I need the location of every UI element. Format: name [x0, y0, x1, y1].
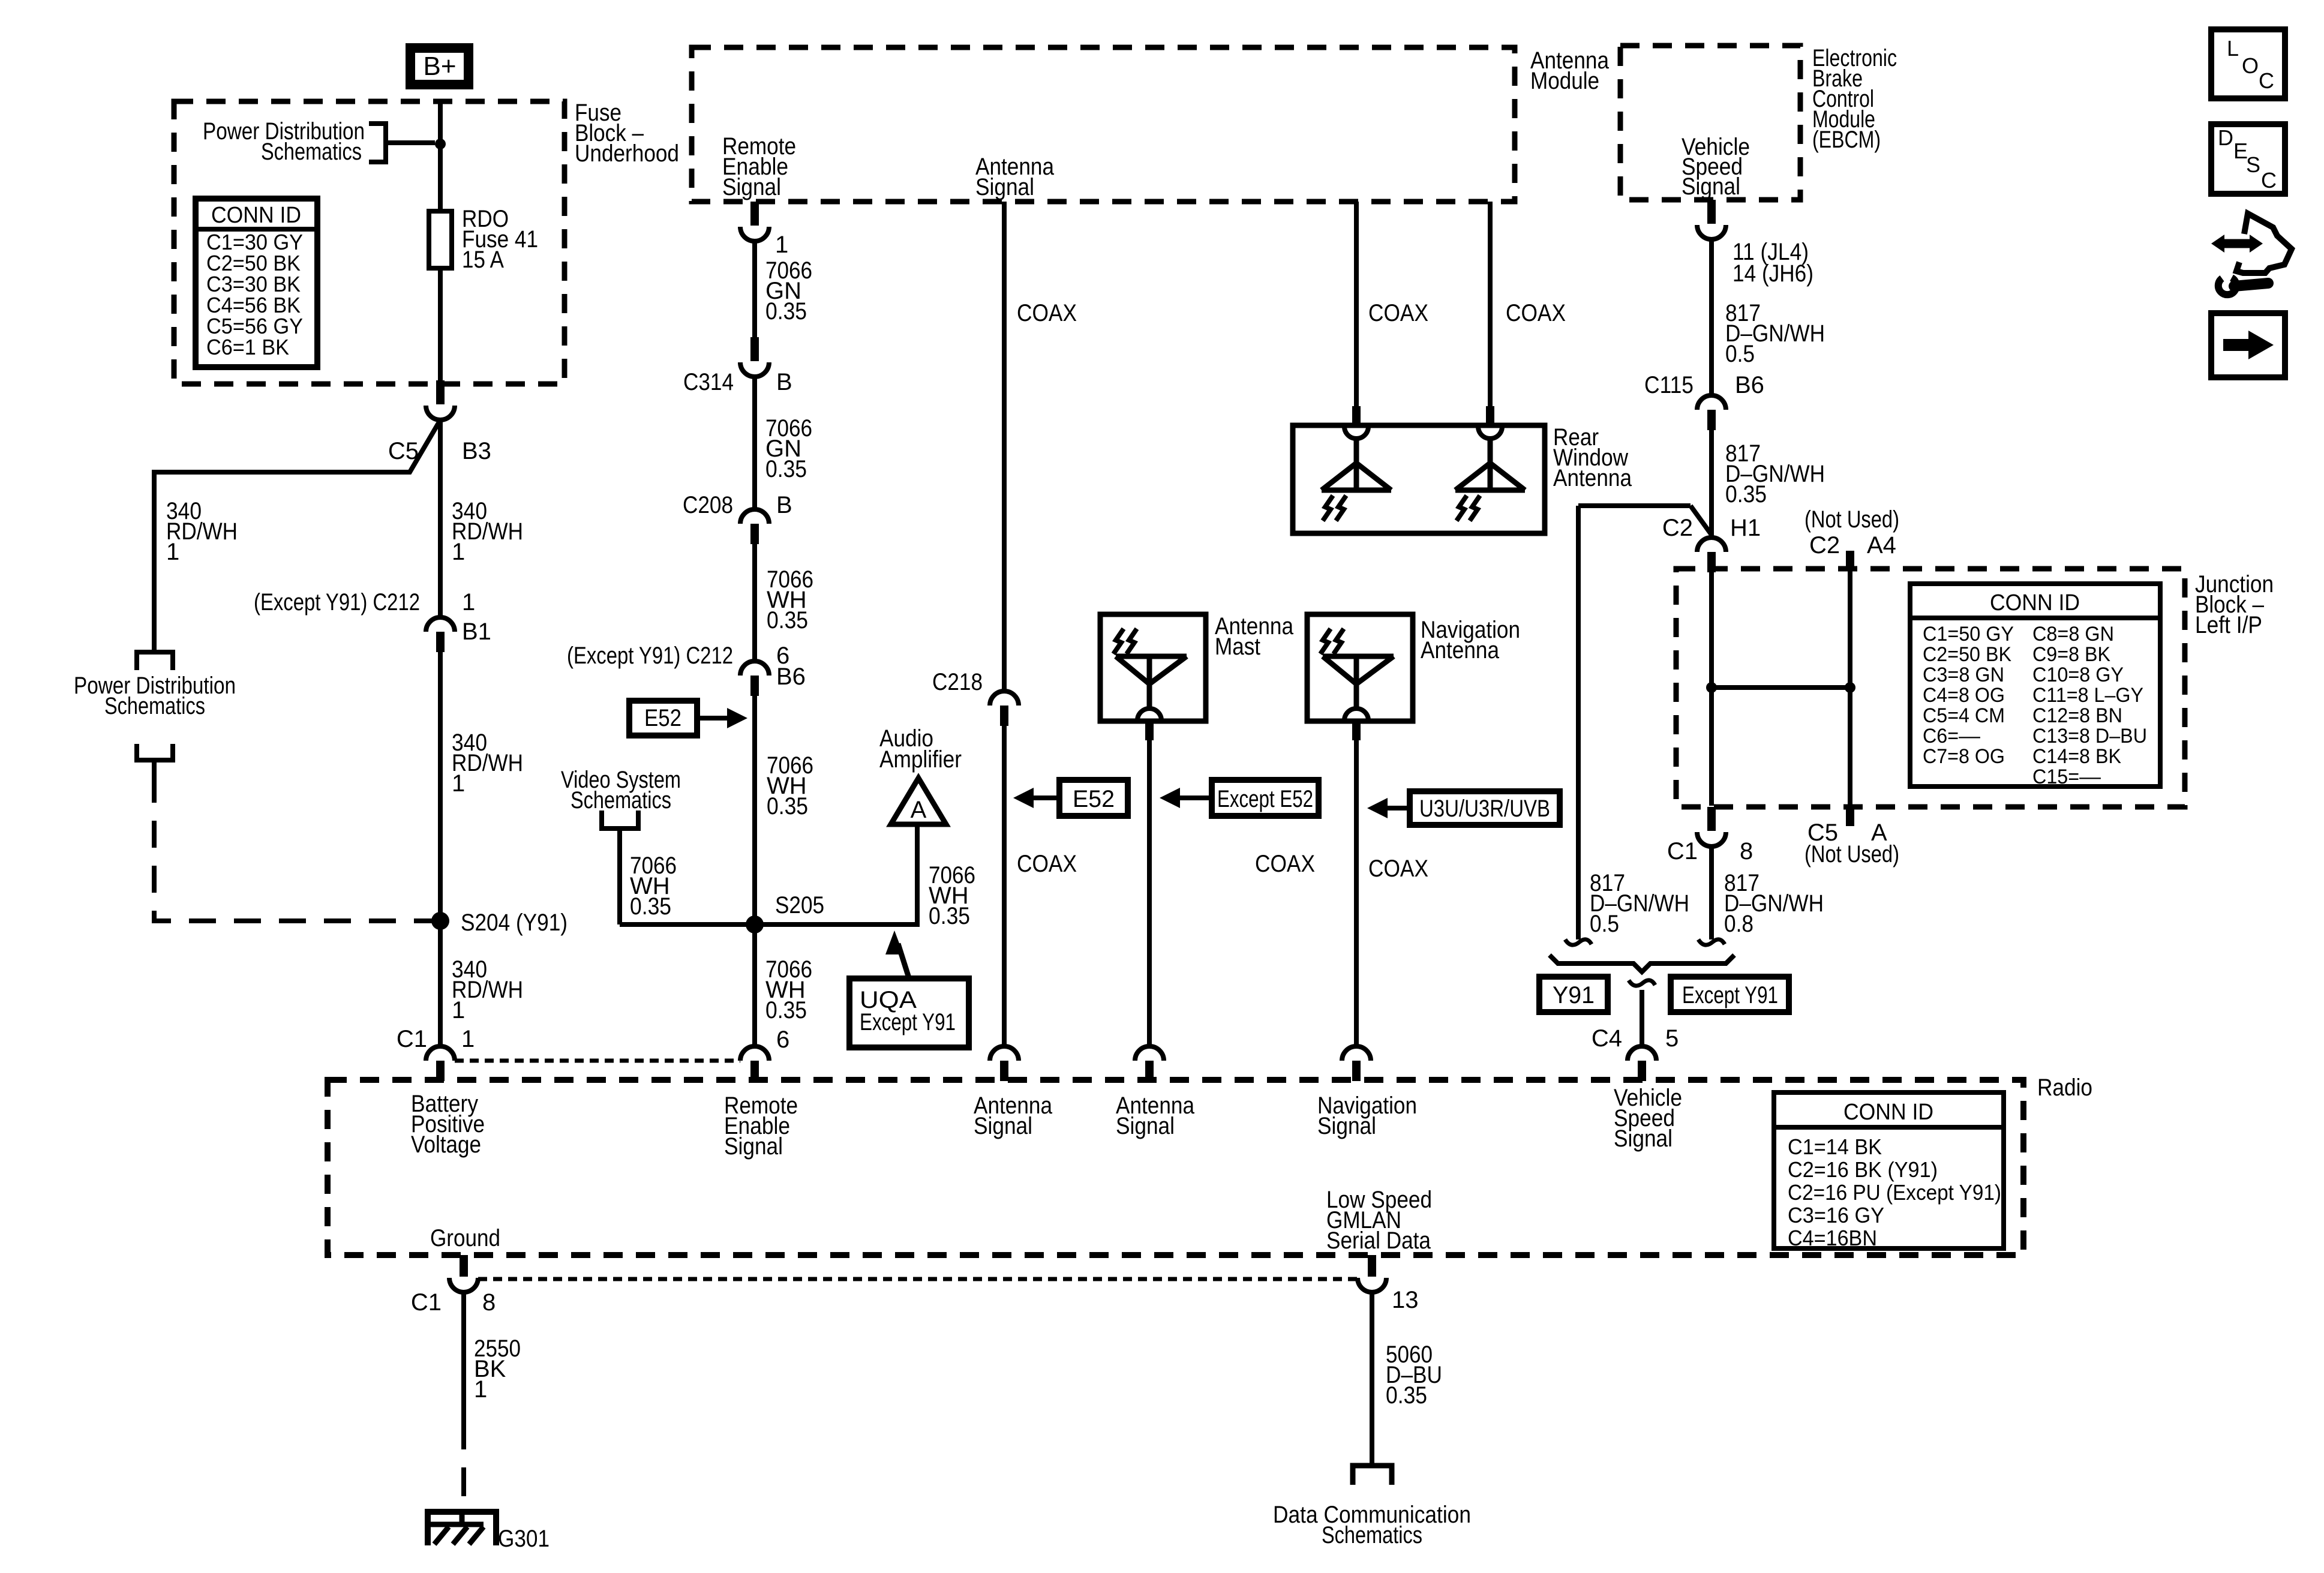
svg-text:C2=16 PU (Except Y91): C2=16 PU (Except Y91) [1788, 1180, 2001, 1205]
label C5 A (Not Used) [1804, 819, 1899, 867]
label B6 (C212 remote) [776, 664, 806, 690]
svg-text:H1: H1 [1730, 515, 1761, 541]
svg-text:C12=8 BN: C12=8 BN [2032, 704, 2122, 727]
label 340 RD/WH 1 (below C212) [452, 730, 523, 797]
svg-text:S204 (Y91): S204 (Y91) [461, 909, 568, 936]
label Battery Positive Voltage [411, 1091, 485, 1158]
wire end curl except Y91 branch [1698, 939, 1725, 945]
svg-text:0.8: 0.8 [1724, 911, 1753, 937]
svg-text:E52: E52 [644, 705, 681, 731]
reference box U3U/U3R/UVB [1367, 791, 1560, 825]
label COAX (antenna signal upper) [1017, 300, 1077, 326]
svg-text:C14=8 BK: C14=8 BK [2032, 745, 2121, 768]
antenna mast box [1100, 614, 1206, 721]
svg-text:15 A: 15 A [462, 247, 504, 273]
label Antenna Module [1530, 47, 1610, 94]
svg-text:B1: B1 [462, 619, 491, 645]
icon shortcut wrench-arrow [2211, 214, 2292, 295]
component Data Communication Schematics reference [1273, 1466, 1471, 1548]
wire navigation antenna to radio [1352, 721, 1361, 1046]
radio dashed box [328, 1080, 2023, 1255]
svg-text:COAX: COAX [1506, 300, 1566, 326]
svg-text:C2: C2 [1662, 515, 1693, 541]
svg-text:Underhood: Underhood [575, 140, 679, 167]
svg-text:Schematics: Schematics [261, 139, 362, 165]
svg-text:(Except Y91) C212: (Except Y91) C212 [254, 589, 420, 616]
label Antenna Signal (radio 2) [1116, 1092, 1195, 1139]
svg-text:C3=16 GY: C3=16 GY [1788, 1203, 1884, 1227]
label 340 RD/WH 1 (battery wire upper) [452, 498, 523, 565]
connector C5/B3 fuse block output [388, 380, 491, 464]
svg-text:0.35: 0.35 [929, 903, 970, 929]
label 817 D-GN/WH 0.8 (except Y91 branch) [1724, 870, 1824, 937]
svg-text:Y91: Y91 [1553, 982, 1595, 1008]
svg-text:COAX: COAX [1255, 851, 1315, 877]
label 2550 BK 1 [474, 1335, 521, 1403]
svg-text:0.35: 0.35 [767, 793, 808, 819]
svg-text:1: 1 [452, 770, 465, 797]
svg-text:C1: C1 [1667, 838, 1698, 864]
wire C212 to radio battery input [438, 652, 443, 1046]
svg-text:C10=8 GY: C10=8 GY [2032, 664, 2124, 686]
label Vehicle Speed Signal (radio) [1614, 1085, 1682, 1152]
audio amplifier triangle A [879, 725, 962, 824]
svg-text:E52: E52 [1073, 786, 1115, 812]
label Remote Enable Signal (antenna module) [722, 133, 796, 200]
wire junction block right vertical [1848, 571, 1852, 806]
connector radio antenna signal 1 [990, 1046, 1019, 1081]
component Power Distribution Schematics (left reference) [74, 652, 236, 776]
label Radio [2037, 1074, 2092, 1101]
svg-text:Signal: Signal [1614, 1125, 1673, 1152]
label (Except Y91) C212 battery [254, 589, 420, 616]
svg-text:0.35: 0.35 [630, 893, 671, 920]
fuse block - underhood dashed box [174, 101, 565, 384]
wire C115 to C2 junction block [1709, 430, 1714, 538]
svg-text:C13=8 D–BU: C13=8 D–BU [2032, 725, 2147, 748]
connector radio battery positive C1/1 [397, 1026, 475, 1081]
svg-text:CONN ID: CONN ID [211, 203, 301, 228]
connector C2/H1 junction block input [1662, 515, 1761, 572]
label 11 (JL4) 14 (JH6) [1733, 239, 1813, 287]
svg-text:S205: S205 [775, 892, 824, 918]
label COAX (navigation) [1368, 855, 1428, 882]
label 340 RD/WH 1 (left branch) [166, 498, 238, 565]
svg-text:C115: C115 [1644, 372, 1694, 398]
label Antenna Signal (antenna module) [975, 154, 1055, 200]
svg-text:Module: Module [1530, 68, 1599, 94]
svg-text:COAX: COAX [1368, 855, 1428, 882]
ground G301 [428, 1512, 550, 1552]
svg-text:Antenna: Antenna [1553, 465, 1632, 491]
svg-text:C7=8 OG: C7=8 OG [1923, 745, 2005, 768]
svg-text:1: 1 [474, 1376, 487, 1403]
navigation antenna box [1307, 614, 1413, 721]
svg-text:Except E52: Except E52 [1217, 786, 1313, 812]
svg-text:S: S [2246, 152, 2260, 177]
svg-text:1: 1 [452, 539, 465, 565]
connector C218 [932, 669, 1019, 726]
svg-text:0.35: 0.35 [767, 607, 808, 634]
reference box E52 (antenna signal) [1013, 780, 1128, 816]
wire C212 to radio remote input [752, 696, 757, 1046]
svg-text:Voltage: Voltage [411, 1131, 481, 1158]
connector EBCM vehicle speed output [1697, 200, 1726, 239]
svg-text:C8=8 GN: C8=8 GN [2032, 623, 2114, 646]
label COAX (antenna mast) [1255, 851, 1315, 877]
svg-text:L: L [2227, 36, 2239, 61]
connector C314 [683, 337, 792, 395]
svg-text:Mast: Mast [1215, 634, 1260, 660]
label 7066 WH 0.35 (video branch) [630, 852, 677, 920]
EBCM dashed box [1620, 46, 1800, 200]
svg-text:C2=50 BK: C2=50 BK [1923, 643, 2011, 666]
svg-text:CONN ID: CONN ID [1843, 1100, 1933, 1125]
wire end curl merged [1629, 980, 1655, 986]
svg-text:Antenna: Antenna [1421, 637, 1500, 664]
connector C208 [683, 492, 792, 544]
svg-text:A: A [911, 797, 927, 823]
svg-text:Signal: Signal [1682, 173, 1740, 200]
svg-text:Signal: Signal [1317, 1113, 1376, 1139]
label 817 D-GN/WH 0.35 (below C115) [1725, 440, 1825, 508]
svg-text:B3: B3 [462, 438, 491, 464]
wire fuse to connector C5 [438, 268, 443, 380]
wire EBCM to C115 [1709, 239, 1714, 395]
svg-text:0.35: 0.35 [1386, 1382, 1427, 1409]
label Fuse Block - Underhood [575, 100, 679, 167]
svg-text:C1: C1 [397, 1026, 427, 1052]
splice S204 (Y91) [431, 909, 568, 936]
connector radio remote enable (pin 6) [740, 1046, 769, 1081]
junction block - left I/P dashed box [1676, 569, 2185, 807]
svg-text:5: 5 [1665, 1025, 1679, 1052]
wire S205 horizontal to audio amp branch [620, 922, 917, 927]
power symbol B+ [410, 48, 469, 85]
svg-text:Left I/P: Left I/P [2195, 612, 2262, 638]
connector radio ground C1/8 [411, 1255, 496, 1316]
svg-text:C9=8 BK: C9=8 BK [2032, 643, 2110, 666]
radio CONN ID table [1774, 1092, 2004, 1250]
wire Y91 branch vertical [1576, 506, 1581, 939]
junction dot power distribution tap [435, 139, 446, 149]
label COAX (rear window left) [1368, 300, 1428, 326]
svg-text:0.35: 0.35 [1725, 481, 1767, 508]
svg-text:(EBCM): (EBCM) [1812, 127, 1881, 153]
label 7066 WH 0.35 (below C208) [767, 566, 813, 634]
merge brace [1550, 955, 1734, 972]
svg-text:B: B [776, 369, 792, 395]
wire ground dashed [461, 1421, 466, 1509]
svg-text:Signal: Signal [722, 174, 781, 200]
label COAX (antenna signal lower) [1017, 851, 1077, 877]
label 7066 WH 0.35 (below C212 remote) [767, 752, 813, 819]
label pin 6 radio remote [776, 1026, 789, 1053]
svg-text:B6: B6 [776, 664, 806, 690]
label 340 RD/WH 1 (below S204) [452, 956, 523, 1023]
label 7066 WH 0.35 (audio amp) [929, 862, 975, 929]
svg-text:C1: C1 [411, 1289, 442, 1316]
label 817 D-GN/WH 0.5 (Y91 branch) [1590, 870, 1689, 937]
connector C212 (battery, Except Y91) [426, 589, 475, 652]
svg-text:8: 8 [482, 1289, 496, 1316]
svg-text:COAX: COAX [1017, 300, 1077, 326]
svg-text:Schematics: Schematics [104, 693, 205, 719]
svg-text:0.5: 0.5 [1590, 911, 1619, 937]
svg-text:Serial Data: Serial Data [1326, 1227, 1431, 1254]
svg-text:1: 1 [775, 232, 788, 258]
wire C218 to radio antenna input [1002, 726, 1007, 1046]
svg-text:C1=14 BK: C1=14 BK [1788, 1134, 1882, 1159]
reference box UQA Except Y91 [849, 930, 969, 1047]
label 7066 WH 0.35 (below S205) [765, 956, 812, 1023]
connector radio antenna signal 2 [1135, 1046, 1164, 1081]
label 817 D-GN/WH 0.5 (above C115) [1725, 300, 1825, 367]
connector pin 1 antenna module remote enable [740, 202, 788, 258]
svg-text:C4=8 OG: C4=8 OG [1923, 684, 2005, 707]
svg-text:C15=––: C15=–– [2032, 766, 2101, 788]
svg-text:C218: C218 [932, 669, 983, 695]
label Navigation Antenna [1421, 617, 1520, 664]
svg-text:U3U/U3R/UVB: U3U/U3R/UVB [1419, 795, 1550, 822]
stub pin A (not used) [1846, 807, 1854, 826]
wire battery feed from B+ into fuse block [438, 100, 443, 211]
svg-text:0.35: 0.35 [765, 298, 807, 325]
option boxes Y91 / Except Y91 [1539, 977, 1789, 1012]
svg-text:(Except Y91) C212: (Except Y91) C212 [567, 643, 733, 669]
svg-text:Ground: Ground [430, 1225, 500, 1251]
label Vehicle Speed Signal (EBCM) [1682, 134, 1750, 200]
wire COAX right (module to rear window antenna) [1486, 202, 1494, 426]
radio harness dotted line bottom [478, 1277, 1358, 1281]
label (Except Y91) C212 remote [567, 643, 733, 669]
wire audio amp riser [915, 824, 920, 927]
svg-text:CONN ID: CONN ID [1990, 590, 2080, 616]
svg-text:C208: C208 [683, 492, 733, 518]
svg-text:Signal: Signal [724, 1133, 783, 1160]
radio harness dotted line top [455, 1059, 740, 1063]
wire C208 to C212 [752, 544, 757, 661]
wire split diagonal below C5 [154, 420, 440, 652]
wire C1/8 to merge [1709, 846, 1714, 939]
rear window antenna box [1293, 425, 1545, 533]
icon LOC box [2211, 29, 2285, 98]
fuse block CONN ID table [196, 199, 317, 367]
svg-text:COAX: COAX [1368, 300, 1428, 326]
wire end curl Y91 branch [1565, 939, 1592, 945]
wire ground solid [461, 1292, 466, 1421]
junction block CONN ID table [1910, 584, 2160, 788]
wire merge to radio C4 [1640, 990, 1644, 1046]
svg-text:Schematics: Schematics [571, 787, 671, 813]
svg-text:C1=50 GY: C1=50 GY [1923, 623, 2014, 646]
svg-text:O: O [2242, 53, 2259, 78]
label 5060 D-BU 0.35 [1386, 1341, 1442, 1409]
reference box E52 (remote enable) [629, 701, 747, 736]
wire junction block left vertical [1709, 571, 1714, 806]
svg-text:Except Y91: Except Y91 [1682, 982, 1778, 1008]
svg-text:1: 1 [166, 539, 179, 565]
wire antenna signal (module to C218) [1002, 202, 1007, 691]
antenna module dashed box [692, 47, 1515, 202]
label Rear Window Antenna [1553, 424, 1632, 491]
label Navigation Signal (radio) [1317, 1092, 1417, 1139]
stub pin A4 (not used) [1846, 551, 1854, 570]
splice S205 [746, 892, 824, 933]
label 7066 GN 0.35 (below C314) [765, 415, 812, 482]
svg-text:Signal: Signal [975, 174, 1034, 200]
svg-text:C11=8 L–GY: C11=8 L–GY [2032, 684, 2143, 707]
label Antenna Mast [1215, 613, 1294, 660]
svg-text:C3=8 GN: C3=8 GN [1923, 664, 2004, 686]
reference bracket to Power Distribution Schematics [369, 124, 435, 162]
svg-text:1: 1 [462, 589, 475, 616]
icon arrow box [2211, 313, 2285, 377]
svg-text:6: 6 [776, 1026, 789, 1053]
label Low Speed GMLAN Serial Data [1326, 1187, 1432, 1254]
component Video System Schematics reference [561, 767, 681, 924]
svg-text:C314: C314 [683, 369, 734, 395]
svg-text:Signal: Signal [1116, 1113, 1175, 1139]
label B1 [462, 619, 491, 645]
svg-text:C6=––: C6=–– [1923, 725, 1980, 748]
svg-text:C5=4 CM: C5=4 CM [1923, 704, 2005, 727]
label COAX (rear window right) [1506, 300, 1566, 326]
svg-text:C2: C2 [1809, 532, 1840, 559]
svg-text:Signal: Signal [974, 1113, 1032, 1139]
wire remote enable to C314 [752, 241, 757, 337]
svg-text:C2=16 BK (Y91): C2=16 BK (Y91) [1788, 1157, 1938, 1182]
reference box Except E52 [1160, 780, 1319, 816]
svg-text:C4: C4 [1592, 1025, 1622, 1052]
connector radio navigation signal [1342, 1046, 1371, 1081]
svg-text:A4: A4 [1867, 532, 1896, 559]
wire COAX left (module to rear window antenna) [1352, 202, 1361, 426]
svg-text:Schematics: Schematics [1322, 1522, 1422, 1548]
svg-text:B6: B6 [1735, 372, 1764, 398]
svg-text:0.35: 0.35 [765, 456, 807, 482]
label Ground (radio) [430, 1225, 500, 1251]
wire C5 to C212 [438, 421, 443, 617]
svg-text:D: D [2218, 125, 2233, 150]
svg-text:B: B [776, 492, 792, 518]
label Remote Enable Signal (radio) [724, 1092, 798, 1160]
label Antenna Signal (radio 1) [974, 1092, 1053, 1139]
svg-text:0.35: 0.35 [765, 997, 807, 1023]
wire junction block crossover [1706, 682, 1855, 693]
icon DESC box [2211, 124, 2285, 194]
label 7066 GN 0.35 (above C314) [765, 257, 812, 325]
connector C115 [1644, 372, 1764, 430]
label Junction Block - Left I/P [2195, 571, 2274, 638]
svg-text:Except Y91: Except Y91 [860, 1009, 956, 1035]
svg-text:Amplifier: Amplifier [879, 746, 962, 773]
fuse RDO Fuse 41 15A [429, 206, 538, 273]
svg-text:14 (JH6): 14 (JH6) [1733, 260, 1813, 287]
dashed wire power distribution to S204 [154, 776, 436, 921]
svg-text:COAX: COAX [1017, 851, 1077, 877]
svg-text:G301: G301 [498, 1526, 550, 1552]
svg-text:C: C [2259, 68, 2274, 93]
svg-text:0.5: 0.5 [1725, 341, 1755, 367]
connector radio vehicle speed C4/5 [1592, 1025, 1679, 1081]
svg-text:B+: B+ [423, 52, 456, 81]
svg-text:1: 1 [452, 997, 465, 1023]
svg-text:13: 13 [1392, 1287, 1419, 1313]
svg-text:C6=1 BK: C6=1 BK [206, 335, 289, 359]
wire serial data [1370, 1292, 1374, 1466]
svg-text:1: 1 [461, 1026, 475, 1052]
svg-text:(Not Used): (Not Used) [1804, 506, 1899, 533]
svg-text:C4=16BN: C4=16BN [1788, 1226, 1877, 1250]
connector C212 (remote enable, Except Y91) [740, 643, 789, 696]
svg-text:(Not Used): (Not Used) [1804, 841, 1899, 867]
wire Y91 branch horizontal [1578, 506, 1711, 534]
connector C1/8 junction block output [1667, 807, 1753, 864]
svg-text:Radio: Radio [2037, 1074, 2092, 1101]
svg-text:8: 8 [1740, 838, 1753, 864]
label Electronic Brake Control Module (EBCM) [1812, 45, 1897, 153]
svg-text:C: C [2261, 168, 2277, 193]
wire C314 to C208 [752, 377, 757, 509]
label (Not Used) C2 A4 [1804, 506, 1899, 559]
wire antenna mast to radio [1145, 721, 1154, 1046]
connector radio serial data pin 13 [1358, 1255, 1419, 1313]
label Power Distribution Schematics (fuse block) [203, 118, 365, 165]
